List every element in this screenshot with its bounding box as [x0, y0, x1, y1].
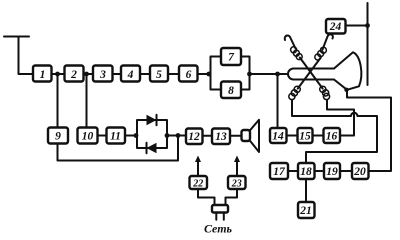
- svg-text:2: 2: [70, 69, 77, 81]
- svg-text:17: 17: [273, 166, 286, 178]
- svg-text:15: 15: [299, 131, 311, 143]
- svg-text:18: 18: [300, 166, 312, 178]
- svg-text:14: 14: [272, 131, 284, 143]
- svg-text:1: 1: [40, 69, 46, 81]
- svg-text:10: 10: [82, 131, 94, 143]
- svg-text:23: 23: [231, 179, 242, 190]
- svg-text:20: 20: [353, 166, 366, 178]
- svg-text:16: 16: [326, 131, 338, 143]
- svg-text:21: 21: [299, 205, 312, 217]
- svg-text:8: 8: [228, 85, 234, 97]
- svg-text:9: 9: [55, 131, 61, 143]
- svg-text:19: 19: [326, 166, 338, 178]
- svg-text:12: 12: [188, 131, 200, 143]
- svg-text:11: 11: [110, 131, 121, 143]
- svg-text:24: 24: [329, 21, 342, 33]
- svg-text:13: 13: [215, 131, 227, 143]
- svg-text:3: 3: [99, 69, 106, 81]
- svg-text:6: 6: [186, 69, 192, 81]
- svg-text:4: 4: [127, 69, 134, 81]
- svg-text:22: 22: [192, 179, 203, 190]
- svg-text:5: 5: [156, 69, 162, 81]
- svg-text:Сеть: Сеть: [204, 222, 233, 236]
